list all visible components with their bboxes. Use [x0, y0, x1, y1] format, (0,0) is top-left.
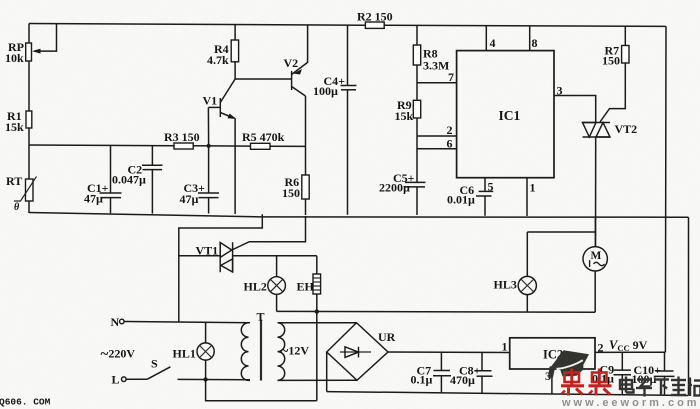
svg-text:1: 1: [530, 181, 536, 195]
svg-text:470µ: 470µ: [450, 373, 475, 387]
capacitor C7: [411, 352, 452, 392]
wire IC1 pin7: [417, 70, 457, 84]
capacitor C5: [379, 171, 426, 215]
wire motor branch from rail: [594, 217, 596, 247]
lamp HL1: [173, 322, 215, 379]
lamp HL2: [244, 256, 286, 312]
wire R9 to C5: [416, 118, 418, 182]
svg-text:150: 150: [282, 186, 300, 200]
svg-text:47µ: 47µ: [180, 192, 199, 206]
svg-text:T: T: [257, 310, 265, 324]
triac VT1: [196, 242, 233, 272]
capacitor C8: [450, 352, 493, 392]
svg-text:UR: UR: [378, 330, 396, 344]
resistor R4: [207, 25, 239, 79]
wire bridge left corner down to ground rail: [326, 352, 328, 392]
capacitor C2: [112, 146, 163, 214]
wire N to transformer: [124, 322, 250, 323]
wire VT1 left terminal: [179, 255, 220, 257]
wire V1 emitter down to bottom rail: [234, 119, 236, 215]
wire IC2 pin3 to ground rail: [545, 369, 552, 394]
svg-text:V1: V1: [203, 94, 218, 108]
svg-text:Q606. COM: Q606. COM: [0, 397, 51, 408]
resistor R7: [602, 26, 629, 67]
svg-text:0.1µ: 0.1µ: [411, 373, 433, 387]
wire VT2 bottom to motor: [595, 137, 597, 247]
svg-text:M: M: [591, 250, 602, 262]
wire IC1 pin2: [417, 123, 457, 137]
svg-text:R5 470k: R5 470k: [242, 130, 285, 144]
svg-text:EH: EH: [297, 280, 315, 294]
wire mid rail y146: [29, 145, 306, 146]
wire IC1 pin8: [530, 26, 538, 51]
wire VT1 right terminal: [233, 255, 317, 257]
wire V1 collector to V2 base: [235, 78, 292, 80]
svg-text:3: 3: [557, 84, 563, 98]
svg-text:0.01µ: 0.01µ: [447, 193, 475, 207]
node junction HL1 bottom: [203, 377, 207, 381]
svg-text:3.3M: 3.3M: [423, 59, 449, 73]
svg-text:100µ: 100µ: [313, 84, 338, 98]
heater EH: [297, 256, 321, 401]
capacitor C9: [592, 352, 631, 395]
capacitor C6 on pin5: [447, 178, 494, 216]
resistor R8: [413, 25, 449, 72]
transformer T primary: [241, 323, 250, 381]
transistor V2: [284, 25, 308, 96]
wire R7 to VT2 gate: [600, 63, 625, 122]
watermark cap logo: [548, 350, 589, 377]
resistor R9: [395, 98, 421, 123]
triac VT2: [583, 122, 638, 137]
watermark dark characters: [620, 377, 700, 397]
svg-text:S: S: [151, 357, 158, 371]
svg-text:1: 1: [502, 340, 508, 354]
terminal N: [111, 315, 125, 329]
svg-text:~220V: ~220V: [101, 347, 136, 363]
svg-text:L: L: [112, 373, 120, 387]
wire right corner of lower section: [688, 217, 690, 395]
wire V2 collector to R6: [305, 96, 307, 175]
svg-text:47µ: 47µ: [84, 192, 103, 206]
transformer T secondary: [278, 323, 285, 381]
capacitor C3: [180, 146, 220, 214]
resistor R2: [357, 10, 393, 29]
svg-text:R2 150: R2 150: [357, 10, 393, 24]
svg-text:5: 5: [488, 180, 494, 194]
svg-text:0.047µ: 0.047µ: [112, 173, 146, 187]
svg-text:7: 7: [448, 70, 454, 84]
svg-text:150: 150: [602, 54, 620, 68]
wire IC1 pin6: [417, 137, 457, 151]
node junction EH bottom: [315, 309, 319, 313]
capacitor C1: [84, 145, 122, 213]
capacitor C10: [632, 352, 675, 395]
thermistor RT: [6, 174, 37, 213]
svg-text:2200µ: 2200µ: [379, 181, 410, 195]
bridge rectifier UR: [327, 323, 396, 381]
svg-text:4.7k: 4.7k: [207, 53, 229, 67]
op-amp U1 IC1 box: [457, 51, 554, 178]
resistor R1: [5, 109, 32, 134]
wire right edge from top rail down to Vcc: [664, 26, 667, 352]
terminal L: [112, 373, 127, 387]
svg-text:HL1: HL1: [173, 347, 196, 361]
svg-text:N: N: [111, 315, 120, 329]
transistor V1: [203, 79, 237, 144]
svg-text:θ: θ: [14, 202, 20, 213]
svg-text:4: 4: [490, 36, 496, 50]
motor M: [583, 247, 607, 313]
resistor R6: [282, 175, 309, 215]
svg-text:HL3: HL3: [494, 278, 517, 292]
regulator IC2 box: [502, 338, 604, 369]
svg-text:VT1: VT1: [196, 244, 219, 258]
svg-text:6: 6: [447, 137, 453, 151]
wire IC1 pin4: [486, 26, 495, 51]
wire IC1 pin1: [527, 178, 536, 216]
svg-text:V2: V2: [284, 56, 299, 70]
svg-text:~12V: ~12V: [281, 344, 310, 360]
wire VT1 gate up to rail: [232, 216, 306, 250]
wire HL3 top to motor branch: [527, 231, 595, 233]
potentiometer RP: [5, 24, 57, 65]
svg-text:VT2: VT2: [615, 122, 638, 136]
wire bridge output to IC2: [388, 351, 510, 354]
svg-text:8: 8: [532, 36, 538, 50]
watermark red characters: [561, 369, 612, 396]
wire bottom ground rail: [327, 392, 689, 396]
resistor R5: [242, 130, 285, 149]
node junction R3-R5-C3-V1: [207, 144, 211, 148]
wire VT1 branch from bottom rail: [179, 214, 262, 321]
lamp HL3: [494, 232, 537, 312]
wire IC1 pin3 to VT2: [554, 84, 596, 123]
wire secondary bottom to bridge: [278, 379, 358, 381]
svg-text:HL2: HL2: [244, 280, 267, 294]
transformer T core: [257, 310, 265, 381]
wire IC2 pin2 Vcc: [595, 351, 665, 353]
svg-text:10k: 10k: [5, 51, 24, 65]
capacitor C4: [313, 25, 357, 215]
svg-text:IC1: IC1: [499, 108, 521, 123]
wire left edge column: [28, 24, 30, 214]
svg-text:R3 150: R3 150: [164, 130, 200, 144]
switch S: [126, 357, 250, 380]
svg-text:15k: 15k: [395, 109, 414, 123]
resistor R3: [164, 130, 200, 149]
svg-text:2: 2: [447, 123, 453, 137]
wire bottom rail of upper box: [29, 213, 689, 218]
wire secondary top to bridge: [278, 322, 357, 324]
wire top rail: [29, 24, 666, 27]
wire R8 to R9: [416, 65, 418, 100]
svg-text:RT: RT: [6, 174, 22, 188]
svg-text:15k: 15k: [5, 120, 24, 134]
svg-text:www.eeworm.com: www.eeworm.com: [561, 397, 700, 409]
wire lower-left return: [206, 380, 317, 401]
wire HL2 EH bottom to motor bottom: [277, 310, 596, 313]
